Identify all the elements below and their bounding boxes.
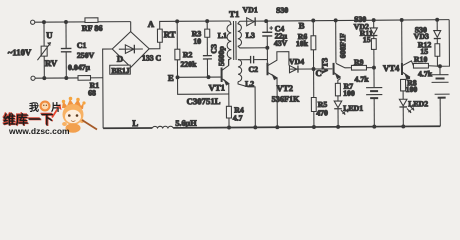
node junction VT4 top	[400, 18, 403, 21]
node junction top x44	[43, 21, 46, 24]
resistor R9	[351, 65, 374, 70]
svg-text:RF 86: RF 86	[82, 24, 103, 33]
svg-text:VT1: VT1	[209, 83, 225, 93]
wire bottom-left	[35, 77, 77, 79]
svg-text:15: 15	[420, 47, 428, 56]
svg-text:E: E	[168, 73, 174, 83]
wire bottom bus left of L	[103, 127, 152, 129]
node junction bottom x44	[43, 77, 46, 80]
svg-text:R10: R10	[414, 55, 428, 64]
svg-text:维库一下: 维库一下	[3, 112, 54, 127]
wire RT top to bus	[160, 21, 178, 29]
node junction VT3 top	[334, 19, 337, 22]
node junction R4 bus	[228, 126, 231, 129]
LED2	[399, 99, 414, 126]
svg-text:15: 15	[363, 35, 371, 44]
capacitor C2	[238, 56, 268, 64]
svg-text:10: 10	[193, 37, 201, 46]
node junction C base	[312, 68, 315, 71]
resistor RT	[157, 29, 162, 42]
inductor L1 primary winding	[227, 21, 231, 66]
wire top bus mid	[177, 20, 229, 22]
transistor VT2	[267, 52, 289, 128]
svg-text:4.7: 4.7	[233, 113, 243, 122]
resistor R6	[311, 20, 316, 69]
svg-text:VD4: VD4	[289, 57, 304, 66]
svg-text:VD1: VD1	[243, 5, 258, 14]
resistor R11	[371, 39, 376, 68]
svg-text:C30751L: C30751L	[187, 96, 221, 106]
node junction top x66	[65, 21, 68, 24]
node junction battery1 top	[373, 66, 376, 69]
svg-text:LED1: LED1	[343, 104, 363, 113]
varistor RV	[37, 22, 51, 78]
resistor R4	[226, 94, 231, 128]
node junction LED2 bus	[402, 125, 405, 128]
wire secondary rail down	[266, 48, 268, 63]
battery GB1	[366, 68, 383, 127]
wire bottom bus right of L	[173, 126, 440, 128]
node junction VD3 top	[436, 18, 439, 21]
diode VD3	[434, 20, 441, 44]
svg-text:0.047μ: 0.047μ	[68, 63, 91, 72]
svg-text:R2: R2	[183, 50, 193, 59]
resistor R5	[311, 69, 316, 127]
node junction R5 bus	[312, 126, 315, 129]
node E junction	[176, 76, 179, 79]
inductor L2 feedback winding	[238, 59, 255, 127]
svg-text:133 C: 133 C	[142, 53, 162, 62]
svg-text:5600p: 5600p	[217, 45, 226, 66]
svg-text:~110V: ~110V	[8, 47, 32, 57]
bridge rectifier D	[112, 31, 149, 67]
capacitor C4 electrolytic	[262, 21, 273, 48]
resistor R10	[413, 63, 440, 68]
svg-text:10k: 10k	[296, 39, 309, 48]
wire right edge	[440, 20, 450, 67]
resistor R7	[335, 83, 340, 96]
svg-text:LED2: LED2	[408, 99, 428, 108]
node junction bottom x66	[65, 77, 68, 80]
svg-text:5.6μH: 5.6μH	[175, 119, 197, 128]
svg-text:608F1F: 608F1F	[338, 33, 347, 58]
node junction battery2 top	[438, 65, 441, 68]
LED1	[334, 96, 348, 127]
svg-text:100: 100	[343, 89, 355, 98]
svg-text:4.7k: 4.7k	[355, 75, 370, 84]
terminal bottom-left	[31, 76, 35, 80]
svg-text:RV: RV	[45, 58, 58, 68]
node junction R2 top	[176, 20, 179, 23]
svg-text:S30: S30	[276, 6, 288, 15]
diode VD1	[240, 17, 266, 26]
wire E down and emitter rail	[178, 77, 229, 94]
svg-text:VT2: VT2	[277, 83, 293, 93]
svg-text:www.dzsc.com: www.dzsc.com	[8, 126, 70, 136]
battery GB2	[431, 66, 449, 126]
resistor R3	[205, 21, 210, 37]
svg-text:L2: L2	[245, 79, 254, 88]
wire R1 to bridge	[89, 77, 103, 79]
svg-text:D: D	[117, 54, 123, 64]
svg-text:A: A	[148, 19, 155, 29]
svg-text:536F1K: 536F1K	[272, 95, 300, 104]
node junction secondary return	[266, 46, 269, 49]
svg-text:VT4: VT4	[383, 63, 400, 73]
node junction C3 bottom	[207, 76, 210, 79]
svg-text:L: L	[132, 118, 138, 128]
wire top-left bus	[35, 21, 131, 24]
inductor L3 secondary winding	[238, 21, 268, 48]
capacitor C1	[61, 22, 72, 78]
watermark logo	[3, 97, 97, 136]
svg-text:220k: 220k	[180, 60, 197, 69]
svg-text:L3: L3	[246, 31, 255, 40]
node junction VT2 emitter bus	[276, 126, 279, 129]
node junction battery1 bus	[373, 125, 376, 128]
svg-text:B: B	[299, 21, 305, 31]
node junction VD2 top	[372, 19, 375, 22]
svg-text:250V: 250V	[77, 51, 95, 60]
diode VD4	[289, 65, 314, 72]
wire bridge left to AC2	[103, 49, 113, 128]
node junction R3 top	[206, 20, 209, 23]
transistor VT4	[402, 20, 414, 80]
svg-text:43V: 43V	[274, 39, 288, 48]
node junction LED1 bus	[337, 125, 340, 128]
svg-text:U: U	[46, 30, 53, 40]
svg-text:T1: T1	[229, 9, 239, 19]
wire bridge right to RT	[149, 42, 160, 49]
node junction R6 top	[312, 19, 315, 22]
wire VT1 base	[178, 76, 221, 78]
wire top bus right	[266, 20, 449, 21]
svg-text:R9: R9	[354, 58, 364, 67]
svg-text:L1: L1	[218, 31, 227, 40]
svg-text:4.7k: 4.7k	[418, 69, 433, 78]
node junction C4 top	[265, 20, 268, 23]
transformer T1 core	[233, 21, 236, 60]
svg-text:C1: C1	[77, 41, 87, 50]
label BE1J box	[110, 65, 131, 74]
resistor R12	[435, 44, 440, 67]
svg-text:100: 100	[406, 85, 418, 94]
svg-text:68: 68	[88, 88, 96, 97]
terminal top-left	[31, 20, 35, 24]
diode VD2	[370, 20, 377, 39]
svg-text:RT: RT	[164, 29, 176, 39]
svg-text:470: 470	[316, 108, 328, 117]
capacitor C3	[203, 37, 212, 77]
resistor R8	[401, 79, 406, 99]
transistor VT1	[222, 59, 229, 94]
svg-text:BE1J: BE1J	[111, 66, 129, 75]
transistor VT3	[333, 20, 351, 83]
resistor RF 86	[85, 18, 98, 23]
resistor R1	[78, 76, 91, 81]
wire top bus down to bridge	[130, 22, 132, 32]
svg-text:C2: C2	[248, 65, 258, 74]
resistor R2	[175, 21, 180, 77]
inductor L	[152, 126, 173, 128]
svg-text:VT3: VT3	[320, 58, 329, 74]
wire VT3 base	[314, 68, 333, 70]
mascot	[52, 97, 97, 133]
node junction L2 bus	[254, 126, 257, 129]
